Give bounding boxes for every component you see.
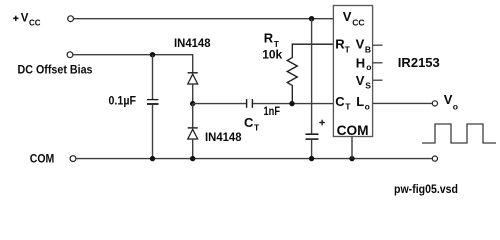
svg-text:T: T [254, 123, 260, 133]
svg-text:COM: COM [337, 122, 369, 138]
diode D2 IN4148 lower [188, 104, 198, 159]
wire cap branch upper [152, 55, 154, 99]
pin stub VS [373, 79, 383, 81]
node COM/IC pin [349, 156, 354, 161]
svg-text:COM: COM [30, 151, 55, 165]
node COM/cap1 [150, 156, 155, 161]
svg-text:V: V [444, 92, 453, 107]
pin Ho label [356, 56, 372, 73]
wire node to CT cap [193, 103, 246, 105]
svg-text:10k: 10k [262, 48, 282, 62]
node COM/diode2 [190, 156, 195, 161]
label plus polarity [319, 120, 325, 126]
pin VB label [356, 37, 371, 55]
pin Lo label [356, 94, 370, 112]
resistor RT 10k [287, 44, 333, 103]
svg-text:1nF: 1nF [264, 104, 281, 118]
svg-text:CC: CC [29, 19, 41, 28]
wire cap branch lower [152, 105, 154, 159]
svg-text:IR2153: IR2153 [398, 56, 440, 70]
svg-text:T: T [345, 102, 351, 112]
terminal COM right [432, 156, 437, 161]
terminal Vo [432, 101, 437, 106]
svg-text:S: S [365, 80, 371, 90]
node COM/bypass [309, 156, 314, 161]
svg-text:o: o [365, 102, 370, 112]
node diode midpoint [190, 101, 195, 106]
svg-text:V: V [356, 37, 365, 52]
wire bypass cap lower [311, 140, 313, 159]
svg-text:pw-fig05.vsd: pw-fig05.vsd [394, 182, 458, 196]
capacitor CT 1nF [247, 99, 253, 108]
label Vo [444, 92, 458, 111]
node Vcc/bypass junction [309, 16, 314, 21]
pin RT label [335, 37, 350, 55]
svg-text:o: o [366, 62, 371, 72]
terminal COM left [70, 156, 76, 162]
terminal +Vcc [68, 16, 74, 22]
square wave symbol [422, 124, 496, 143]
pin stub VB [373, 44, 383, 46]
diode D1 IN4148 upper [188, 73, 198, 104]
svg-text:B: B [365, 44, 371, 54]
wire COM rail [76, 158, 432, 160]
wire bypass cap upper [311, 19, 313, 134]
terminal DC Offset Bias [67, 52, 73, 58]
pin CT label [335, 94, 351, 112]
svg-text:L: L [356, 94, 364, 109]
wire COM pin stub [351, 137, 353, 159]
capacitor C2 electrolytic [306, 134, 319, 139]
pin stub Ho [373, 62, 383, 64]
svg-text:H: H [356, 56, 365, 71]
svg-text:T: T [345, 44, 351, 54]
svg-text:V: V [343, 9, 352, 24]
pin VS label [356, 73, 371, 90]
node CT/RT junction [289, 101, 294, 106]
svg-text:C: C [335, 94, 345, 109]
wire CT cap to IC [253, 103, 333, 105]
svg-text:IN4148: IN4148 [205, 130, 242, 144]
wire DC offset bias to diode branch [73, 55, 193, 73]
node bias/cap junction [150, 52, 155, 57]
svg-text:C: C [244, 115, 254, 130]
wire Lo output [373, 102, 433, 104]
svg-text:DC Offset Bias: DC Offset Bias [18, 62, 93, 76]
label RT [264, 31, 280, 49]
label CT [244, 115, 260, 133]
svg-text:o: o [453, 101, 458, 111]
wire Vcc rail [74, 18, 334, 20]
svg-text:V: V [21, 13, 29, 25]
label +Vcc [13, 13, 41, 28]
svg-text:IN4148: IN4148 [174, 36, 211, 50]
op-amp U1 IR2153 body [333, 6, 372, 137]
svg-text:0.1µF: 0.1µF [109, 94, 137, 108]
svg-text:R: R [264, 31, 274, 46]
capacitor C1 0.1uF [147, 100, 159, 104]
svg-text:V: V [356, 73, 365, 88]
pin Vcc label [343, 9, 365, 27]
svg-text:CC: CC [352, 17, 364, 27]
